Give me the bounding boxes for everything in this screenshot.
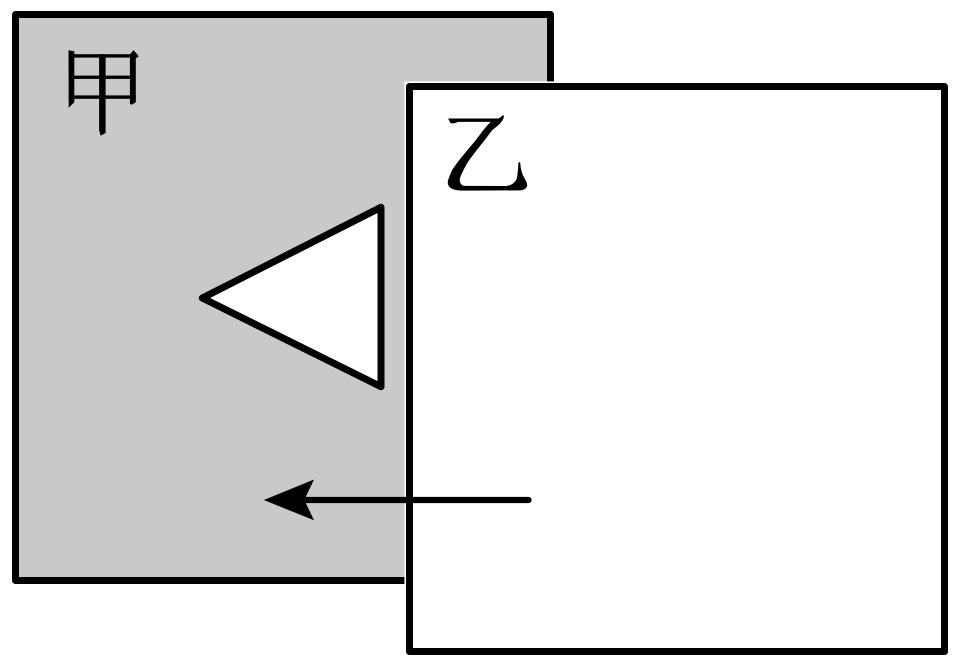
甲 middle horizontal xyxy=(70,76,133,79)
甲 bottom horizontal xyxy=(69,95,136,98)
甲 right vertical with top serif xyxy=(130,50,139,105)
label 甲 (hand-drawn glyph) xyxy=(69,50,139,136)
arrow shaft (leftward) xyxy=(290,497,529,503)
甲 center vertical with pointed tip xyxy=(99,54,106,136)
plate 乙 white halo (thin light rim around its border) xyxy=(404,81,949,656)
plate 乙 (white square, on top) xyxy=(410,87,945,652)
label 乙 (hand-drawn glyph) xyxy=(448,115,527,191)
plate 甲 (gray square) xyxy=(16,15,551,581)
arrow head (leftward) xyxy=(264,480,314,521)
triangle hole (white, black outline) xyxy=(202,207,381,386)
甲 top horizontal xyxy=(69,54,133,57)
甲 left vertical xyxy=(69,50,75,108)
